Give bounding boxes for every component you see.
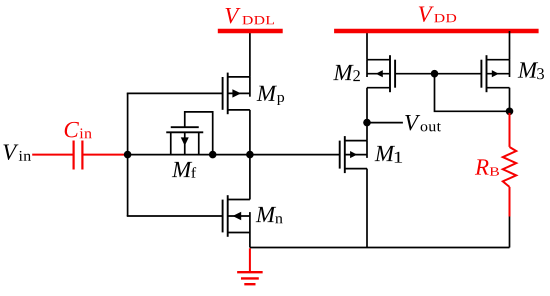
wire gate branch vertical <box>127 93 129 216</box>
wire Vin lead (red) <box>32 154 73 156</box>
wire M2 drain down to Vout node <box>366 88 368 123</box>
wire Vout stub <box>367 122 403 124</box>
label Cin <box>65 122 79 138</box>
wire to Mn gate <box>127 215 223 217</box>
wire RB top lead (red) <box>509 113 511 147</box>
node M3 drain junction dot <box>506 108 514 116</box>
wire cap to input node (red) <box>83 154 127 156</box>
wire RB to bottom rail <box>509 217 511 248</box>
node Mf gate junction dot <box>209 151 217 159</box>
wire to Mp gate <box>127 92 223 94</box>
label Mp <box>257 86 277 101</box>
node Vin label <box>3 145 18 161</box>
label M2 <box>333 65 353 80</box>
wire Mp drain down to mid rail <box>249 110 251 155</box>
wire M3 source up to VDD <box>509 31 511 60</box>
wire Mf gate loop <box>185 112 213 155</box>
transistor Mf <box>166 127 203 154</box>
transistor M1 <box>340 136 367 173</box>
node input junction dot <box>124 151 132 159</box>
wire bottom rail <box>250 247 510 249</box>
supply rail VDD <box>334 29 538 33</box>
capacitor Cin <box>74 141 83 170</box>
label Mn <box>256 207 276 222</box>
wire M2 gate to M3 gate <box>395 73 481 75</box>
transistor M3 <box>481 55 509 92</box>
transistor M2 <box>367 55 395 92</box>
label M1 <box>375 146 395 161</box>
wire diode connection <box>435 74 510 112</box>
label VDDL <box>226 8 241 24</box>
transistor Mn <box>223 195 250 237</box>
label Vout <box>405 115 420 131</box>
wire Mp source to VDDL <box>249 31 251 77</box>
wire RB bottom lead (red) <box>509 187 511 217</box>
transistor Mp <box>223 73 250 115</box>
node Vout dot <box>363 119 371 127</box>
wire M1 drain down to bottom rail <box>366 169 368 248</box>
label VDD <box>419 7 434 23</box>
wire M2 source up to VDD <box>366 31 368 60</box>
wire M3 drain down to junction <box>509 88 511 112</box>
ground <box>237 272 263 284</box>
wire Mn source down to bottom rail <box>249 233 251 248</box>
label RB <box>475 159 489 174</box>
node gate-line junction dot <box>431 70 439 78</box>
resistor RB <box>503 147 516 187</box>
label Mf <box>172 162 192 177</box>
wire mid rail <box>128 154 340 156</box>
wire M1 source up to Vout node <box>366 123 368 141</box>
wire Mn drain up to mid rail <box>249 155 251 200</box>
node Mp/Mn drain junction dot <box>246 151 254 159</box>
supply rail VDDL <box>218 29 283 33</box>
wire ground lead (red) <box>249 248 251 271</box>
label M3 <box>518 62 538 77</box>
